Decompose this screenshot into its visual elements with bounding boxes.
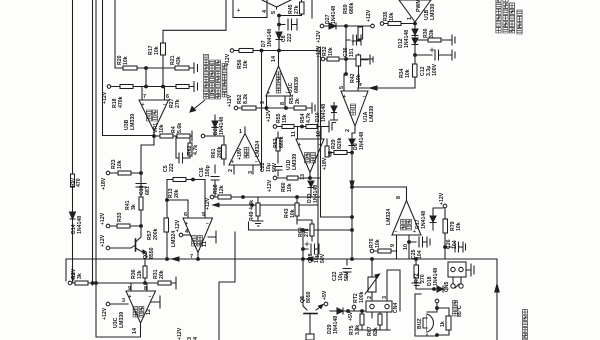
resistor R57 (164, 218, 169, 232)
terminal +5V D29 (352, 305, 356, 309)
node R56 row (278, 49, 281, 52)
svg-text:R6782k: R6782k (367, 326, 379, 336)
svg-text:+: + (129, 294, 132, 300)
ground R42 (361, 55, 373, 64)
svg-text:R5812k: R5812k (213, 184, 225, 194)
op-amp U1A (341, 91, 368, 126)
resistor R27 (176, 85, 189, 89)
wire U3B output (153, 131, 155, 136)
wire pin9 stub (266, 96, 268, 108)
transistor Q8 (303, 305, 323, 335)
resistor R41 (139, 197, 143, 210)
svg-text:R3612k: R3612k (131, 269, 143, 279)
capacitor C16 (211, 165, 219, 197)
svg-text:R72270: R72270 (414, 273, 426, 283)
label U1C function (276, 72, 281, 93)
svg-text:+: + (237, 8, 240, 14)
node x167 (166, 199, 169, 202)
svg-text:C36151: C36151 (343, 47, 355, 57)
svg-text:R1710k: R1710k (148, 45, 160, 55)
svg-text:+12V: +12V (267, 179, 273, 192)
connector CN4 (366, 270, 400, 330)
node D7 top (278, 14, 281, 17)
svg-text:+18V: +18V (322, 157, 328, 170)
wire pin2 stub (233, 165, 235, 174)
resistor R31 (158, 277, 176, 289)
svg-text:2: 2 (228, 169, 234, 172)
resistor R58 (218, 195, 231, 199)
resistor R60 (287, 176, 298, 180)
wire apex to D7 (277, 7, 280, 30)
node R32 (345, 58, 348, 61)
svg-text:R2143k: R2143k (170, 55, 182, 65)
svg-text:+: + (185, 221, 188, 227)
svg-text:3: 3 (248, 171, 254, 174)
svg-text:R4310k: R4310k (284, 208, 296, 218)
potentiometer VR1 (154, 134, 177, 138)
node C28 (302, 248, 305, 251)
svg-text:R5610k: R5610k (237, 59, 249, 69)
node y205 (251, 204, 254, 207)
resistor R67 (378, 311, 382, 330)
label U3B function (147, 110, 158, 121)
wire row R52 (238, 107, 312, 109)
resistor R52b 680k (276, 132, 280, 158)
wire row R70 (374, 251, 397, 259)
wire pin10 stub (408, 235, 410, 242)
capacitor C25 (409, 237, 430, 247)
svg-text:C2210μ50V: C2210μ50V (260, 162, 278, 172)
wire y217 branch (321, 216, 353, 218)
note signal direction (523, 310, 528, 340)
svg-text:C10681: C10681 (139, 185, 151, 195)
resistor R54 (306, 125, 317, 129)
wire row R58 (214, 196, 262, 198)
wire pin8 stub (284, 96, 286, 108)
svg-text:+12V: +12V (205, 197, 211, 210)
svg-text:R7010k: R7010k (369, 238, 381, 248)
svg-text:1: 1 (407, 17, 413, 20)
ground pin11 (208, 231, 216, 243)
resistor R55 (282, 125, 294, 129)
wire row y86.5 (111, 86, 194, 88)
svg-text:+: + (231, 160, 234, 166)
svg-text:R3210k: R3210k (322, 46, 334, 56)
op-amp U1D (296, 139, 324, 173)
resistor R34 (413, 64, 418, 77)
resistor R18 (120, 85, 133, 89)
wire top feedback (163, 0, 226, 43)
wire pin3 stub (252, 165, 254, 174)
svg-text:PWM: PWM (416, 0, 422, 12)
svg-text:10: 10 (316, 131, 322, 137)
svg-text:BUZ: BUZ (417, 318, 423, 329)
capacitor C22b (343, 259, 351, 278)
svg-text:R2727k: R2727k (169, 98, 181, 108)
note top-right annotation (496, 0, 522, 34)
svg-text:R49 4.7k: R49 4.7k (249, 200, 255, 221)
wire U1D out (309, 173, 311, 179)
terminal +12V R79 (443, 204, 447, 208)
svg-text:3: 3 (122, 298, 125, 304)
svg-text:11: 11 (291, 131, 297, 137)
svg-text:+12V: +12V (225, 53, 231, 66)
node R79 (444, 246, 447, 249)
diode D9 (349, 139, 355, 146)
node D27 (345, 25, 348, 28)
node R9 junctions (91, 282, 94, 285)
svg-text:10: 10 (403, 244, 409, 250)
svg-text:−: − (206, 221, 209, 227)
wire pin8 up (352, 187, 407, 201)
svg-text:7: 7 (190, 254, 193, 260)
op-amp LM324 full-bridge (392, 201, 421, 236)
svg-text:−: − (286, 91, 289, 97)
resistor R79 (443, 208, 448, 259)
wire D18 row (416, 288, 448, 290)
wire R13 row (167, 179, 205, 181)
svg-text:C2210μ50V: C2210μ50V (332, 271, 350, 281)
node D12 (414, 39, 417, 42)
ground CN5 (466, 264, 474, 276)
wire stepped return (219, 232, 235, 340)
resistor R61 (222, 136, 227, 165)
svg-text:8: 8 (396, 196, 402, 199)
resistor R35 (388, 22, 401, 26)
label U1D function (305, 152, 316, 163)
wire C36 branch (345, 26, 347, 59)
svg-text:+12V: +12V (439, 192, 445, 205)
capacitor C5 (176, 136, 190, 163)
wire y197 extension (243, 196, 321, 198)
terminal +12V R35 (380, 22, 384, 26)
capacitor C8 (279, 19, 297, 30)
svg-text:R3510k: R3510k (383, 11, 395, 21)
transistor Q2 (136, 226, 147, 259)
wire row R32 (325, 58, 373, 60)
svg-text:5: 5 (339, 86, 345, 89)
svg-text:4: 4 (262, 10, 268, 13)
svg-text:R6927k: R6927k (298, 227, 310, 237)
arrowhead y259 mid (306, 257, 313, 261)
terminal +12V R59 (371, 24, 375, 28)
svg-text:2: 2 (367, 296, 373, 299)
wire main drop x352 (352, 126, 355, 259)
svg-text:+: + (413, 229, 416, 235)
wire left bus A (72, 0, 74, 283)
svg-text:9: 9 (260, 101, 266, 104)
label U3C function (133, 306, 144, 317)
node U1B out (414, 22, 417, 25)
node y311 (347, 310, 350, 313)
svg-text:8: 8 (144, 286, 147, 292)
wire U3B fb down (141, 136, 154, 173)
node R33 (140, 225, 143, 228)
svg-text:13: 13 (300, 174, 306, 180)
wire row +18V (110, 172, 141, 174)
op-amp LM324 power-adjust (183, 218, 213, 253)
resistor R36 (143, 259, 147, 283)
resistor R72 (414, 259, 419, 289)
resistor R70 (378, 249, 391, 253)
node junction y68 (145, 67, 148, 70)
wire junction link (145, 68, 147, 87)
wire left bus D (103, 0, 155, 136)
capacitor C28 (303, 242, 319, 254)
node R55 (301, 125, 304, 128)
terminal +12V R60 (273, 176, 277, 180)
svg-text:−: − (319, 142, 322, 148)
wire y259 end corner (416, 258, 497, 260)
wire pin4 link (358, 88, 414, 91)
label U1A function (351, 104, 356, 115)
svg-text:LM324: LM324 (255, 141, 261, 157)
svg-text:+18V: +18V (101, 177, 107, 190)
op-amp LM324 overvoltage (229, 134, 261, 166)
ground R54 (329, 121, 332, 132)
wire drop x303 (302, 230, 304, 306)
arrowhead signal up (495, 284, 499, 292)
svg-text:−: − (363, 94, 366, 100)
svg-text:CN5: CN5 (444, 282, 450, 292)
svg-text:6: 6 (184, 212, 187, 218)
diode D13 (308, 181, 314, 197)
terminal +12V D27 (320, 24, 324, 28)
resistor R62 (188, 138, 192, 158)
op-amp U3C (131, 283, 147, 291)
label thermostat (453, 300, 458, 316)
svg-text:+12V: +12V (102, 307, 108, 320)
wire row R29 (330, 152, 352, 154)
op-amp U3B (142, 87, 165, 101)
svg-text:R4210k: R4210k (350, 73, 362, 83)
svg-text:4: 4 (358, 83, 364, 86)
node junctions y86 (145, 85, 148, 88)
wire Q2 base (110, 245, 136, 248)
resistor R4 (177, 131, 192, 141)
svg-text:14: 14 (271, 56, 277, 62)
diode D14 (70, 212, 76, 219)
resistor R51 (294, 106, 306, 110)
wire bus x320.5 (320, 47, 322, 217)
wire left bus C (95, 0, 97, 337)
label power function (192, 235, 203, 246)
node VR1 (153, 135, 156, 138)
svg-text:4: 4 (185, 229, 188, 235)
resistor R23 (118, 171, 131, 175)
svg-text:R528.2k: R528.2k (237, 94, 249, 104)
resistor R32 (327, 57, 339, 61)
svg-text:+12V: +12V (100, 212, 106, 225)
diode D29 (337, 308, 343, 314)
svg-text:−: − (163, 102, 166, 108)
capacitor C22a (274, 158, 282, 176)
resistor R29 (334, 151, 347, 155)
svg-text:+: + (343, 94, 346, 100)
svg-text:+12V: +12V (227, 94, 233, 107)
wire left bus B (92, 0, 94, 285)
terminal +12V R9 (68, 281, 72, 285)
svg-text:R3120k: R3120k (153, 269, 165, 279)
svg-text:R624.7k: R624.7k (187, 145, 199, 155)
svg-text:R7910k: R7910k (450, 221, 462, 231)
svg-text:6: 6 (166, 94, 169, 100)
svg-text:C25104: C25104 (411, 249, 423, 259)
diode D10 (330, 102, 338, 123)
svg-text:+12V: +12V (266, 109, 272, 122)
svg-text:R93k: R93k (71, 272, 83, 279)
capacitor C10 (136, 184, 146, 188)
note annotation arrow (190, 100, 205, 112)
svg-text:+12V: +12V (316, 30, 322, 43)
wire R30 branch (415, 39, 428, 41)
node U1D out (309, 177, 312, 180)
node buzzer (436, 307, 439, 310)
node R43 (296, 196, 299, 199)
terminal +12V R52 (234, 106, 238, 110)
wire mid bus (140, 173, 142, 226)
capacitor C12 (415, 48, 455, 60)
svg-text:+: + (142, 102, 145, 108)
svg-text:R544.7k: R544.7k (300, 113, 312, 123)
wire row R56 (234, 50, 318, 52)
wire row y311 (330, 310, 390, 312)
svg-text:+12V: +12V (177, 327, 183, 340)
svg-text:−: − (149, 294, 152, 300)
node y259 junctions (166, 258, 169, 261)
wire pin11 stub (297, 127, 299, 140)
svg-text:9: 9 (390, 244, 396, 247)
terminal +12V R32 (321, 57, 325, 61)
resistor R59 (352, 26, 363, 41)
resistor R21 (175, 66, 189, 70)
svg-text:5: 5 (271, 11, 277, 14)
note annotation text (204, 54, 227, 99)
resistor R9 (75, 281, 88, 285)
resistor R48 (325, 139, 329, 157)
svg-text:LM324: LM324 (386, 209, 392, 225)
wire row D27 (324, 25, 370, 27)
terminal +12V R55 (273, 125, 277, 129)
wire pin14 (278, 51, 280, 67)
ground R51 (312, 103, 315, 113)
terminal +12V D25 (201, 134, 205, 138)
wire row R35 (384, 23, 415, 25)
terminal +5V BUZ (435, 299, 439, 303)
resistor R30 (428, 35, 455, 45)
svg-text:CN4: CN4 (393, 303, 399, 313)
terminal R70 (370, 249, 374, 253)
svg-text:5: 5 (202, 212, 205, 218)
wire pin9 stub (396, 235, 398, 251)
terminal +12V R56 (230, 49, 234, 53)
resistor R33 (117, 224, 130, 228)
buzzer BUZ (423, 314, 433, 332)
svg-text:+5V: +5V (348, 311, 354, 321)
svg-text:R753.9k: R753.9k (349, 325, 361, 335)
diode D18 (437, 286, 443, 292)
terminal +12V U3C pin3 (106, 302, 128, 306)
terminal +12V row86 (107, 85, 111, 89)
wire pin1 up (244, 127, 246, 134)
wire pin5 link (344, 59, 346, 91)
svg-text:+12V: +12V (175, 219, 181, 232)
wire U3C output (96, 323, 141, 337)
svg-text:7: 7 (143, 94, 146, 100)
svg-text:8: 8 (280, 102, 286, 105)
resistor R49 (256, 197, 260, 221)
arrowhead y259 left (172, 257, 179, 261)
resistor R75 (360, 311, 364, 330)
terminal +12V pin4 (179, 233, 190, 237)
arrowhead x352 down (350, 181, 354, 188)
svg-text:+12V: +12V (366, 9, 372, 22)
capacitor top row y68 (194, 63, 198, 73)
svg-text:R3033k: R3033k (423, 28, 435, 38)
svg-text:R3410k: R3410k (399, 68, 411, 78)
wire row R33 (110, 225, 141, 227)
svg-text:3: 3 (382, 296, 388, 299)
resistor R42 (356, 54, 361, 88)
wire top stub x312 (311, 0, 313, 18)
op-amp U1B (399, 0, 431, 22)
resistor R97 (71, 174, 75, 187)
resistor R43 (295, 197, 299, 224)
ground R49 (253, 221, 263, 226)
svg-text:+18V: +18V (237, 147, 243, 160)
node pin5 (345, 73, 348, 76)
capacitor C36 (346, 35, 361, 45)
wire buzzer net (415, 294, 449, 336)
resistor R20 (123, 66, 137, 70)
node pin10 (408, 241, 411, 244)
wire x167 branch (166, 180, 188, 260)
wire row y330 (355, 329, 390, 331)
terminal +12V Q2 (106, 246, 110, 250)
wire row y68 (115, 67, 194, 69)
arrowhead pin4 (370, 86, 377, 90)
svg-text:C26104: C26104 (446, 239, 458, 249)
svg-text:LM324: LM324 (171, 231, 177, 247)
node R23 (140, 172, 143, 175)
diode D25 (212, 115, 218, 136)
wire row R55 (277, 126, 329, 128)
diode D12b (412, 38, 418, 45)
svg-text:−: − (255, 160, 258, 166)
terminal +12V R58 (210, 195, 214, 199)
svg-text:48: 48 (328, 151, 334, 157)
wire pin10 stub (320, 127, 322, 140)
IC box partial top (233, 0, 267, 18)
ground R72 (412, 283, 421, 286)
svg-text:1k: 1k (440, 321, 446, 327)
resistor R52 (242, 106, 256, 110)
wire D25 row (205, 135, 224, 137)
svg-text:−: − (395, 229, 398, 235)
svg-text:+5V: +5V (322, 290, 328, 300)
resistor R45 (279, 0, 304, 16)
svg-text:1: 1 (239, 129, 242, 135)
polarity marks op-amps (129, 91, 417, 301)
capacitor row y86 (194, 82, 198, 92)
diode D17 (430, 208, 443, 230)
wire output pin7 (197, 253, 199, 260)
op-amp partial top (262, 0, 291, 7)
ground U3C pin12 (151, 296, 160, 308)
node D18 (433, 288, 436, 291)
wire row R9 (66, 259, 158, 283)
wire pin5 down (204, 180, 206, 219)
